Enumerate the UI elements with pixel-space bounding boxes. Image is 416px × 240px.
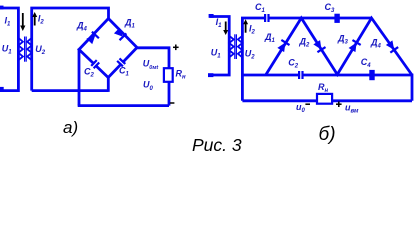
svg-text:Rн: Rн (176, 69, 187, 81)
svg-text:C1: C1 (119, 66, 130, 78)
svg-text:C2: C2 (288, 58, 299, 70)
svg-text:U1: U1 (2, 43, 13, 55)
svg-text:C1: C1 (255, 2, 266, 14)
svg-text:Рис. 3: Рис. 3 (192, 135, 242, 155)
svg-text:U0мt: U0мt (143, 59, 160, 72)
svg-text:C2: C2 (84, 67, 95, 79)
svg-text:Д2: Д2 (299, 37, 311, 49)
svg-text:Д4: Д4 (370, 38, 382, 50)
svg-text:I2: I2 (249, 24, 256, 36)
svg-text:C3: C3 (325, 2, 336, 14)
svg-text:U0: U0 (143, 80, 154, 93)
svg-text:C4: C4 (361, 57, 372, 69)
svg-text:б): б) (319, 124, 336, 145)
svg-text:Д1: Д1 (124, 18, 136, 30)
svg-text:U1: U1 (211, 47, 222, 59)
svg-text:U2: U2 (35, 44, 46, 56)
svg-text:Rн: Rн (318, 82, 329, 94)
svg-text:I1: I1 (5, 16, 12, 28)
svg-text:uвм: uвм (345, 103, 359, 115)
svg-text:I1: I1 (216, 17, 223, 29)
svg-text:u0: u0 (296, 102, 306, 114)
svg-text:Д4: Д4 (76, 21, 88, 33)
svg-text:I2: I2 (38, 14, 45, 26)
svg-text:Д3: Д3 (337, 34, 349, 46)
svg-text:U2: U2 (245, 49, 256, 61)
svg-text:Д1: Д1 (264, 32, 276, 44)
svg-text:а): а) (63, 118, 78, 137)
